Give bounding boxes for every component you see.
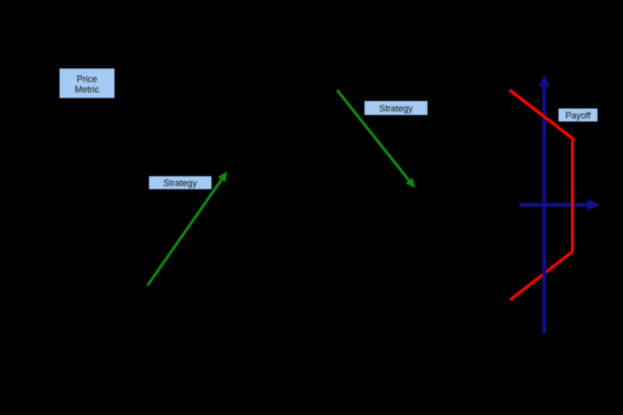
svg-text:Strategy: Strategy — [163, 178, 197, 188]
svg-text:Strategy: Strategy — [379, 104, 413, 114]
red payoff line lower segment (under axes) — [510, 252, 573, 301]
svg-text:Payoff: Payoff — [565, 111, 591, 121]
red payoff line upper segments (over axes) — [510, 90, 573, 252]
blue horizontal axis — [519, 199, 600, 211]
green arrow 1 (to Strategy 1) — [148, 171, 228, 285]
green arrow 2 (from Strategy 2) — [337, 90, 415, 188]
box Payoff — [558, 108, 598, 122]
box Price Metric — [59, 68, 115, 99]
blue vertical axis — [538, 75, 550, 334]
svg-text:Price: Price — [77, 74, 98, 84]
box Strategy 1 — [149, 176, 213, 190]
svg-text:Metric: Metric — [75, 85, 100, 95]
box Strategy 2 — [364, 101, 428, 116]
